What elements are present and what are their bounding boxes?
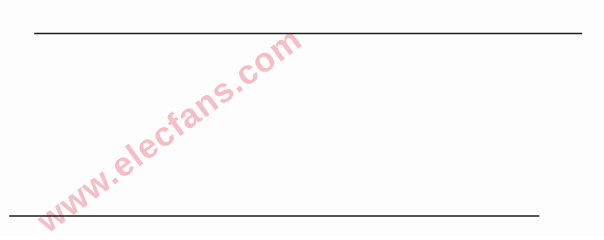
- wire top rail: [35, 33, 581, 35]
- wire bottom rail: [10, 215, 539, 217]
- watermark diagonal: [29, 20, 309, 240]
